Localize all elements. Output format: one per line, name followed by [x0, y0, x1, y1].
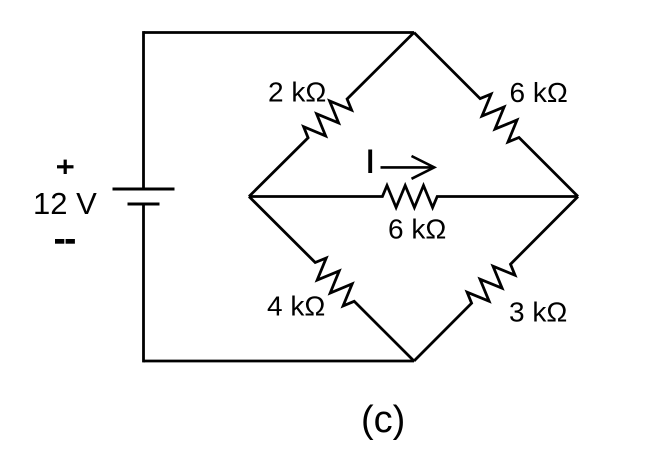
label: + polarity of source — [57, 160, 74, 174]
svg-text:(c): (c) — [361, 399, 405, 441]
wire: left vertical lower (battery - plate to bottom wire) — [142, 204, 145, 362]
resistor 6 kOhm upper-right (top node to right node) — [414, 33, 578, 197]
node: top junction — [413, 31, 415, 33]
wire: left vertical upper (top wire to battery + plate) — [142, 31, 145, 189]
node: left junction — [248, 195, 250, 197]
wire: top horizontal from battery to top node — [144, 31, 415, 34]
svg-text:4 kΩ: 4 kΩ — [267, 291, 325, 322]
svg-text:3 kΩ: 3 kΩ — [509, 297, 567, 328]
resistor 4 kOhm (left node to bottom node) — [249, 197, 414, 362]
battery V1 12V: short (-) plate — [128, 203, 160, 206]
resistor 3 kOhm (bottom node to right node) — [414, 197, 578, 362]
battery V1 12V: long (+) plate — [113, 188, 175, 191]
svg-text:6 kΩ: 6 kΩ — [388, 214, 446, 245]
svg-text:I: I — [366, 143, 375, 179]
node: bottom junction — [413, 360, 415, 362]
node: right junction — [577, 195, 579, 197]
label: - polarity of source (drawn as two dashes) — [55, 239, 75, 244]
svg-text:12 V: 12 V — [33, 186, 97, 221]
resistor 6 kOhm middle (left node to right node) — [249, 186, 578, 208]
current arrow for I (shaft and open head) — [381, 156, 435, 179]
wire: bottom horizontal from battery branch to bottom node — [144, 360, 415, 363]
resistor 2 kOhm (left node to top node) — [249, 33, 414, 197]
svg-text:6 kΩ: 6 kΩ — [510, 77, 568, 108]
svg-text:2 kΩ: 2 kΩ — [268, 77, 326, 108]
